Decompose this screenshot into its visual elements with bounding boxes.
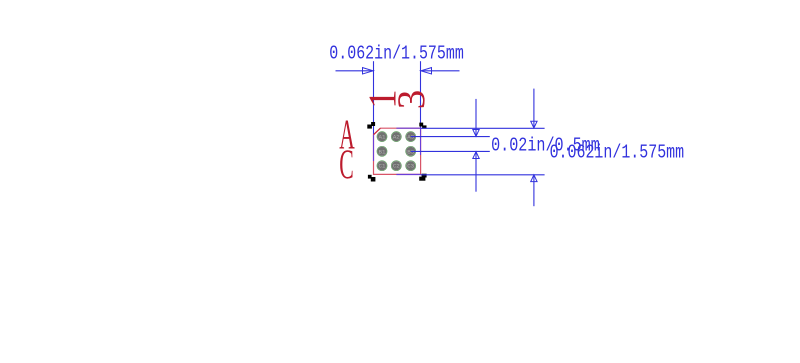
package outline (chamfered top-left) [374,128,421,174]
top dimension arrowhead left (points right) [363,68,374,74]
svg-text:0.062in/1.575mm: 0.062in/1.575mm [329,43,464,65]
svg-text:0.062in/1.575mm: 0.062in/1.575mm [550,141,685,163]
top dimension line right tail [422,70,460,72]
svg-text:C2: C2 [393,163,400,170]
chamfer accent [374,128,381,135]
pad B1 [377,146,387,156]
corner mark top-right [419,123,426,129]
right horizontal extension line top (y=128.3) [421,127,545,129]
svg-text:C: C [339,142,354,188]
svg-text:C1: C1 [379,163,386,170]
pad A2 [391,132,401,142]
leader line from pad A3 [411,136,490,138]
violet overlap: ext line over right edge [420,128,422,155]
svg-text:C3: C3 [407,163,414,170]
0.062in dimension vertical line upper with down arrow [533,89,535,128]
pad B3 [406,146,416,156]
violet overlap: top edge [396,127,420,129]
pad C3 [406,161,416,171]
pad C2 [391,161,401,171]
corner mark bottom-left [368,175,376,182]
pad A3 [406,132,416,142]
pad A1 [377,132,387,142]
svg-text:A2: A2 [393,134,400,141]
0.02in dimension vertical line lower with up arrow [475,152,477,191]
svg-text:A1: A1 [379,134,386,141]
0.02in dimension vertical line upper with down arrow [475,99,477,136]
extension line left (x=373.5) [373,61,375,135]
corner mark bottom-right [419,174,426,181]
top dimension line left tail [336,70,373,72]
pad C1 [377,161,387,171]
extension line right (x=420.5) [420,61,422,128]
0.062in dimension vertical line lower with up arrow [533,176,535,207]
svg-text:3: 3 [390,90,433,110]
svg-text:B1: B1 [379,148,386,155]
corner mark top-left [367,122,375,129]
leader line from pad B3 [411,150,490,152]
right horizontal extension line bottom (y=174.8) [421,174,545,176]
violet overlap: ext line over left edge [373,135,375,161]
top dimension arrowhead right (points left) [421,68,432,74]
violet overlap: bottom edge [396,174,420,176]
